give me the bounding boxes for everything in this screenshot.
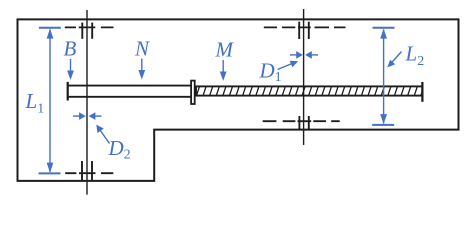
dimension D1 left arrow	[290, 54, 298, 56]
svg-text:D1: D1	[259, 59, 282, 86]
force arrow N	[141, 59, 143, 73]
dimension L2 bottom tick	[372, 124, 394, 126]
bearing ticks top-left	[82, 23, 92, 39]
dimension L1 top tick	[39, 27, 61, 29]
dimension L1 top arrowhead	[47, 29, 54, 39]
hatching	[196, 85, 424, 97]
center line left (bearing axis x=87)	[86, 10, 88, 195]
svg-text:D2: D2	[108, 136, 131, 163]
dashed bearing line bottom-right	[263, 120, 340, 122]
dimension D2 left arrow	[73, 115, 81, 117]
svg-text:L1: L1	[25, 89, 45, 117]
svg-text:M: M	[215, 38, 235, 62]
label L2 leader arrow	[390, 52, 402, 65]
dimension L1 bottom tick	[39, 172, 61, 174]
force arrow B	[70, 59, 72, 73]
dashed bearing line top-right	[264, 26, 346, 28]
hatched shaft section body	[196, 86, 422, 95]
shaft right end cap	[421, 82, 423, 102]
dimension L2 top tick	[373, 27, 395, 29]
dimension D2 right arrow	[94, 115, 102, 117]
svg-text:B: B	[64, 37, 77, 61]
dimension L1 line	[49, 30, 51, 173]
dimension L2 top arrowhead	[380, 29, 387, 39]
dashed bearing line top-left	[65, 26, 114, 28]
shaft plain section	[68, 86, 191, 97]
dimension D1 leader arrow	[278, 64, 293, 70]
shaft left end cap	[67, 82, 69, 101]
dimension L1 bottom arrowhead	[47, 163, 54, 173]
bearing ticks bottom-right	[299, 116, 308, 130]
center line right (bearing axis x=303.6)	[303, 9, 305, 145]
bearing ticks bottom-left	[82, 161, 92, 180]
dimension L2 bottom arrowhead	[380, 114, 387, 124]
bearing ticks top-right	[299, 22, 309, 39]
housing outline	[18, 19, 459, 181]
dashed bearing line bottom-left	[65, 172, 113, 174]
collar	[191, 81, 195, 104]
dimension L2 line	[383, 30, 385, 124]
svg-text:L2: L2	[405, 42, 425, 70]
force arrow M	[222, 60, 224, 74]
svg-text:N: N	[134, 37, 150, 61]
dimension D2 leader arrow	[100, 130, 110, 144]
dimension D1 right arrow	[311, 54, 319, 56]
